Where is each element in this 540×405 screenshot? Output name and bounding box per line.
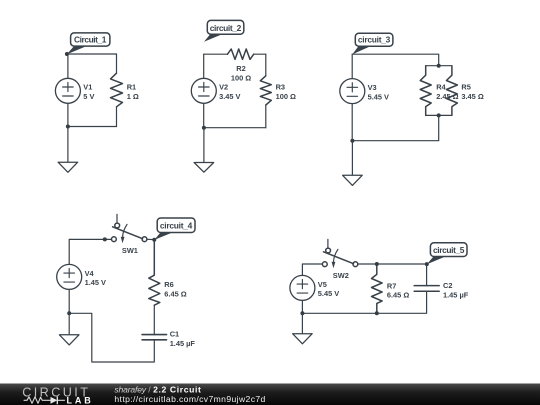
svg-text:R3: R3: [276, 83, 285, 92]
switch SW1: [112, 214, 147, 243]
svg-text:5 V: 5 V: [83, 92, 94, 101]
wire: [68, 126, 117, 128]
capacitor C2: [377, 264, 439, 313]
wire: [204, 127, 266, 129]
junction dot: [375, 262, 379, 266]
svg-text:http://circuitlab.com/cv7mn9uj: http://circuitlab.com/cv7mn9ujw2c7d: [114, 394, 265, 404]
ground: [343, 141, 363, 186]
svg-text:R7: R7: [387, 281, 396, 290]
label R1 value 1 Ω: [127, 92, 139, 101]
CircuitLab logo: [22, 385, 91, 405]
footer url text: [114, 394, 265, 404]
wire: [147, 238, 154, 240]
svg-text:circuit_4: circuit_4: [160, 221, 193, 231]
wire: [358, 263, 427, 265]
wire: [302, 264, 324, 275]
label R6 name: [164, 280, 173, 289]
svg-text:V3: V3: [368, 83, 377, 92]
label R4 name: [436, 82, 446, 91]
svg-text:1.45 µF: 1.45 µF: [443, 290, 469, 299]
svg-text:6.45 Ω: 6.45 Ω: [164, 289, 186, 298]
voltage source V5: [290, 275, 315, 300]
label C2 value 1.45 µF: [443, 290, 469, 299]
svg-text:3.45 V: 3.45 V: [219, 92, 240, 101]
svg-text:V4: V4: [85, 269, 95, 278]
wire: [265, 54, 267, 128]
junction dot: [66, 125, 70, 129]
svg-text:V2: V2: [219, 83, 228, 92]
voltage source V2: [191, 78, 216, 103]
label circuit_4: [154, 218, 195, 240]
label V5 value 5.45 V: [318, 289, 339, 298]
label Circuit_1: [67, 33, 110, 54]
label V4 name: [85, 269, 95, 278]
svg-text:Circuit_1: Circuit_1: [74, 34, 107, 44]
resistor R5: [446, 66, 457, 116]
junction dot: [375, 311, 379, 315]
svg-text:R5: R5: [461, 82, 470, 91]
voltage source V1: [55, 78, 80, 103]
voltage source V4: [57, 264, 82, 289]
label circuit_3: [352, 33, 393, 54]
label R4 value 2.45 Ω: [436, 92, 458, 101]
label R3 name: [276, 83, 285, 92]
junction dot: [67, 311, 71, 315]
svg-text:R2: R2: [236, 64, 245, 73]
junction dot: [437, 113, 441, 117]
resistor R3: [260, 76, 271, 105]
junction dot: [202, 126, 206, 130]
label R5 value 3.45 Ω: [461, 92, 483, 101]
label R1 name: [127, 83, 136, 92]
wire: [352, 54, 439, 65]
label C2 name: [443, 281, 452, 290]
label V1 name: [83, 83, 92, 92]
svg-text:SW1: SW1: [122, 246, 138, 255]
footer title text: [114, 384, 201, 394]
junction dot: [425, 262, 429, 266]
label SW1 name: [122, 246, 138, 255]
label SW2 name: [333, 271, 349, 280]
svg-text:sharafey / 2.2 Circuit: sharafey / 2.2 Circuit: [114, 384, 201, 394]
svg-text:V1: V1: [83, 83, 92, 92]
label R2 value 100 Ω: [231, 74, 251, 83]
label V5 name: [318, 280, 327, 289]
wire: [69, 239, 114, 264]
label R3 value 100 Ω: [276, 92, 296, 101]
label C1 value 1.45 µF: [170, 339, 196, 348]
label V1 value 5 V: [83, 92, 94, 101]
label V4 value 1.45 V: [85, 278, 106, 287]
svg-text:1.45 V: 1.45 V: [85, 278, 106, 287]
svg-text:R4: R4: [436, 82, 446, 91]
label V2 name: [219, 83, 228, 92]
svg-text:6.45 Ω: 6.45 Ω: [387, 291, 409, 300]
wire: [67, 53, 117, 55]
svg-text:3.45 Ω: 3.45 Ω: [461, 92, 483, 101]
ground: [59, 313, 79, 345]
svg-text:1.45 µF: 1.45 µF: [170, 339, 196, 348]
svg-text:R1: R1: [127, 83, 136, 92]
label C1 name: [170, 330, 179, 339]
svg-text:circuit_2: circuit_2: [210, 23, 242, 33]
ground: [293, 313, 313, 344]
svg-text:100 Ω: 100 Ω: [231, 74, 251, 83]
svg-text:5.45 V: 5.45 V: [318, 289, 339, 298]
wire: [67, 54, 69, 127]
resistor R1: [111, 73, 123, 107]
svg-text:circuit_5: circuit_5: [433, 245, 465, 255]
wire: [352, 66, 452, 141]
junction dot: [65, 52, 69, 56]
ground: [194, 128, 214, 173]
resistor R2: [228, 49, 254, 59]
resistor R6: [149, 240, 160, 306]
wire: [68, 289, 70, 313]
resistor R7: [372, 264, 383, 313]
label circuit_5: [427, 243, 467, 264]
label V3 value 5.45 V: [368, 92, 389, 101]
resistor R4: [420, 66, 431, 116]
wire: [116, 54, 118, 127]
label R7 value 6.45 Ω: [387, 291, 409, 300]
capacitor C1: [142, 305, 166, 340]
label V2 value 3.45 V: [219, 92, 240, 101]
label R5 name: [461, 82, 470, 91]
svg-text:C1: C1: [170, 330, 179, 339]
junction dot: [300, 311, 304, 315]
svg-text:5.45 V: 5.45 V: [368, 92, 389, 101]
label R2 name: [236, 64, 245, 73]
wire: [302, 300, 376, 313]
svg-text:LAB: LAB: [67, 396, 92, 405]
junction dot: [437, 64, 441, 68]
voltage source V3: [340, 79, 365, 104]
ground: [58, 127, 78, 173]
svg-text:V5: V5: [318, 280, 327, 289]
svg-text:C2: C2: [443, 281, 452, 290]
junction dot: [103, 237, 107, 241]
wire: [69, 313, 154, 362]
svg-text:100 Ω: 100 Ω: [276, 92, 296, 101]
svg-text:1 Ω: 1 Ω: [127, 92, 139, 101]
label R6 value 6.45 Ω: [164, 289, 186, 298]
footer bar: [0, 384, 540, 405]
svg-text:SW2: SW2: [333, 271, 349, 280]
svg-text:R6: R6: [164, 280, 173, 289]
label V3 name: [368, 83, 377, 92]
svg-text:circuit_3: circuit_3: [358, 35, 391, 45]
switch SW2: [322, 239, 357, 268]
label circuit_2: [204, 20, 244, 41]
wire: [203, 54, 205, 128]
junction dot: [350, 139, 354, 143]
junction dot: [152, 238, 156, 242]
wire: [204, 53, 266, 55]
label R7 name: [387, 281, 396, 290]
wire: [351, 54, 353, 141]
